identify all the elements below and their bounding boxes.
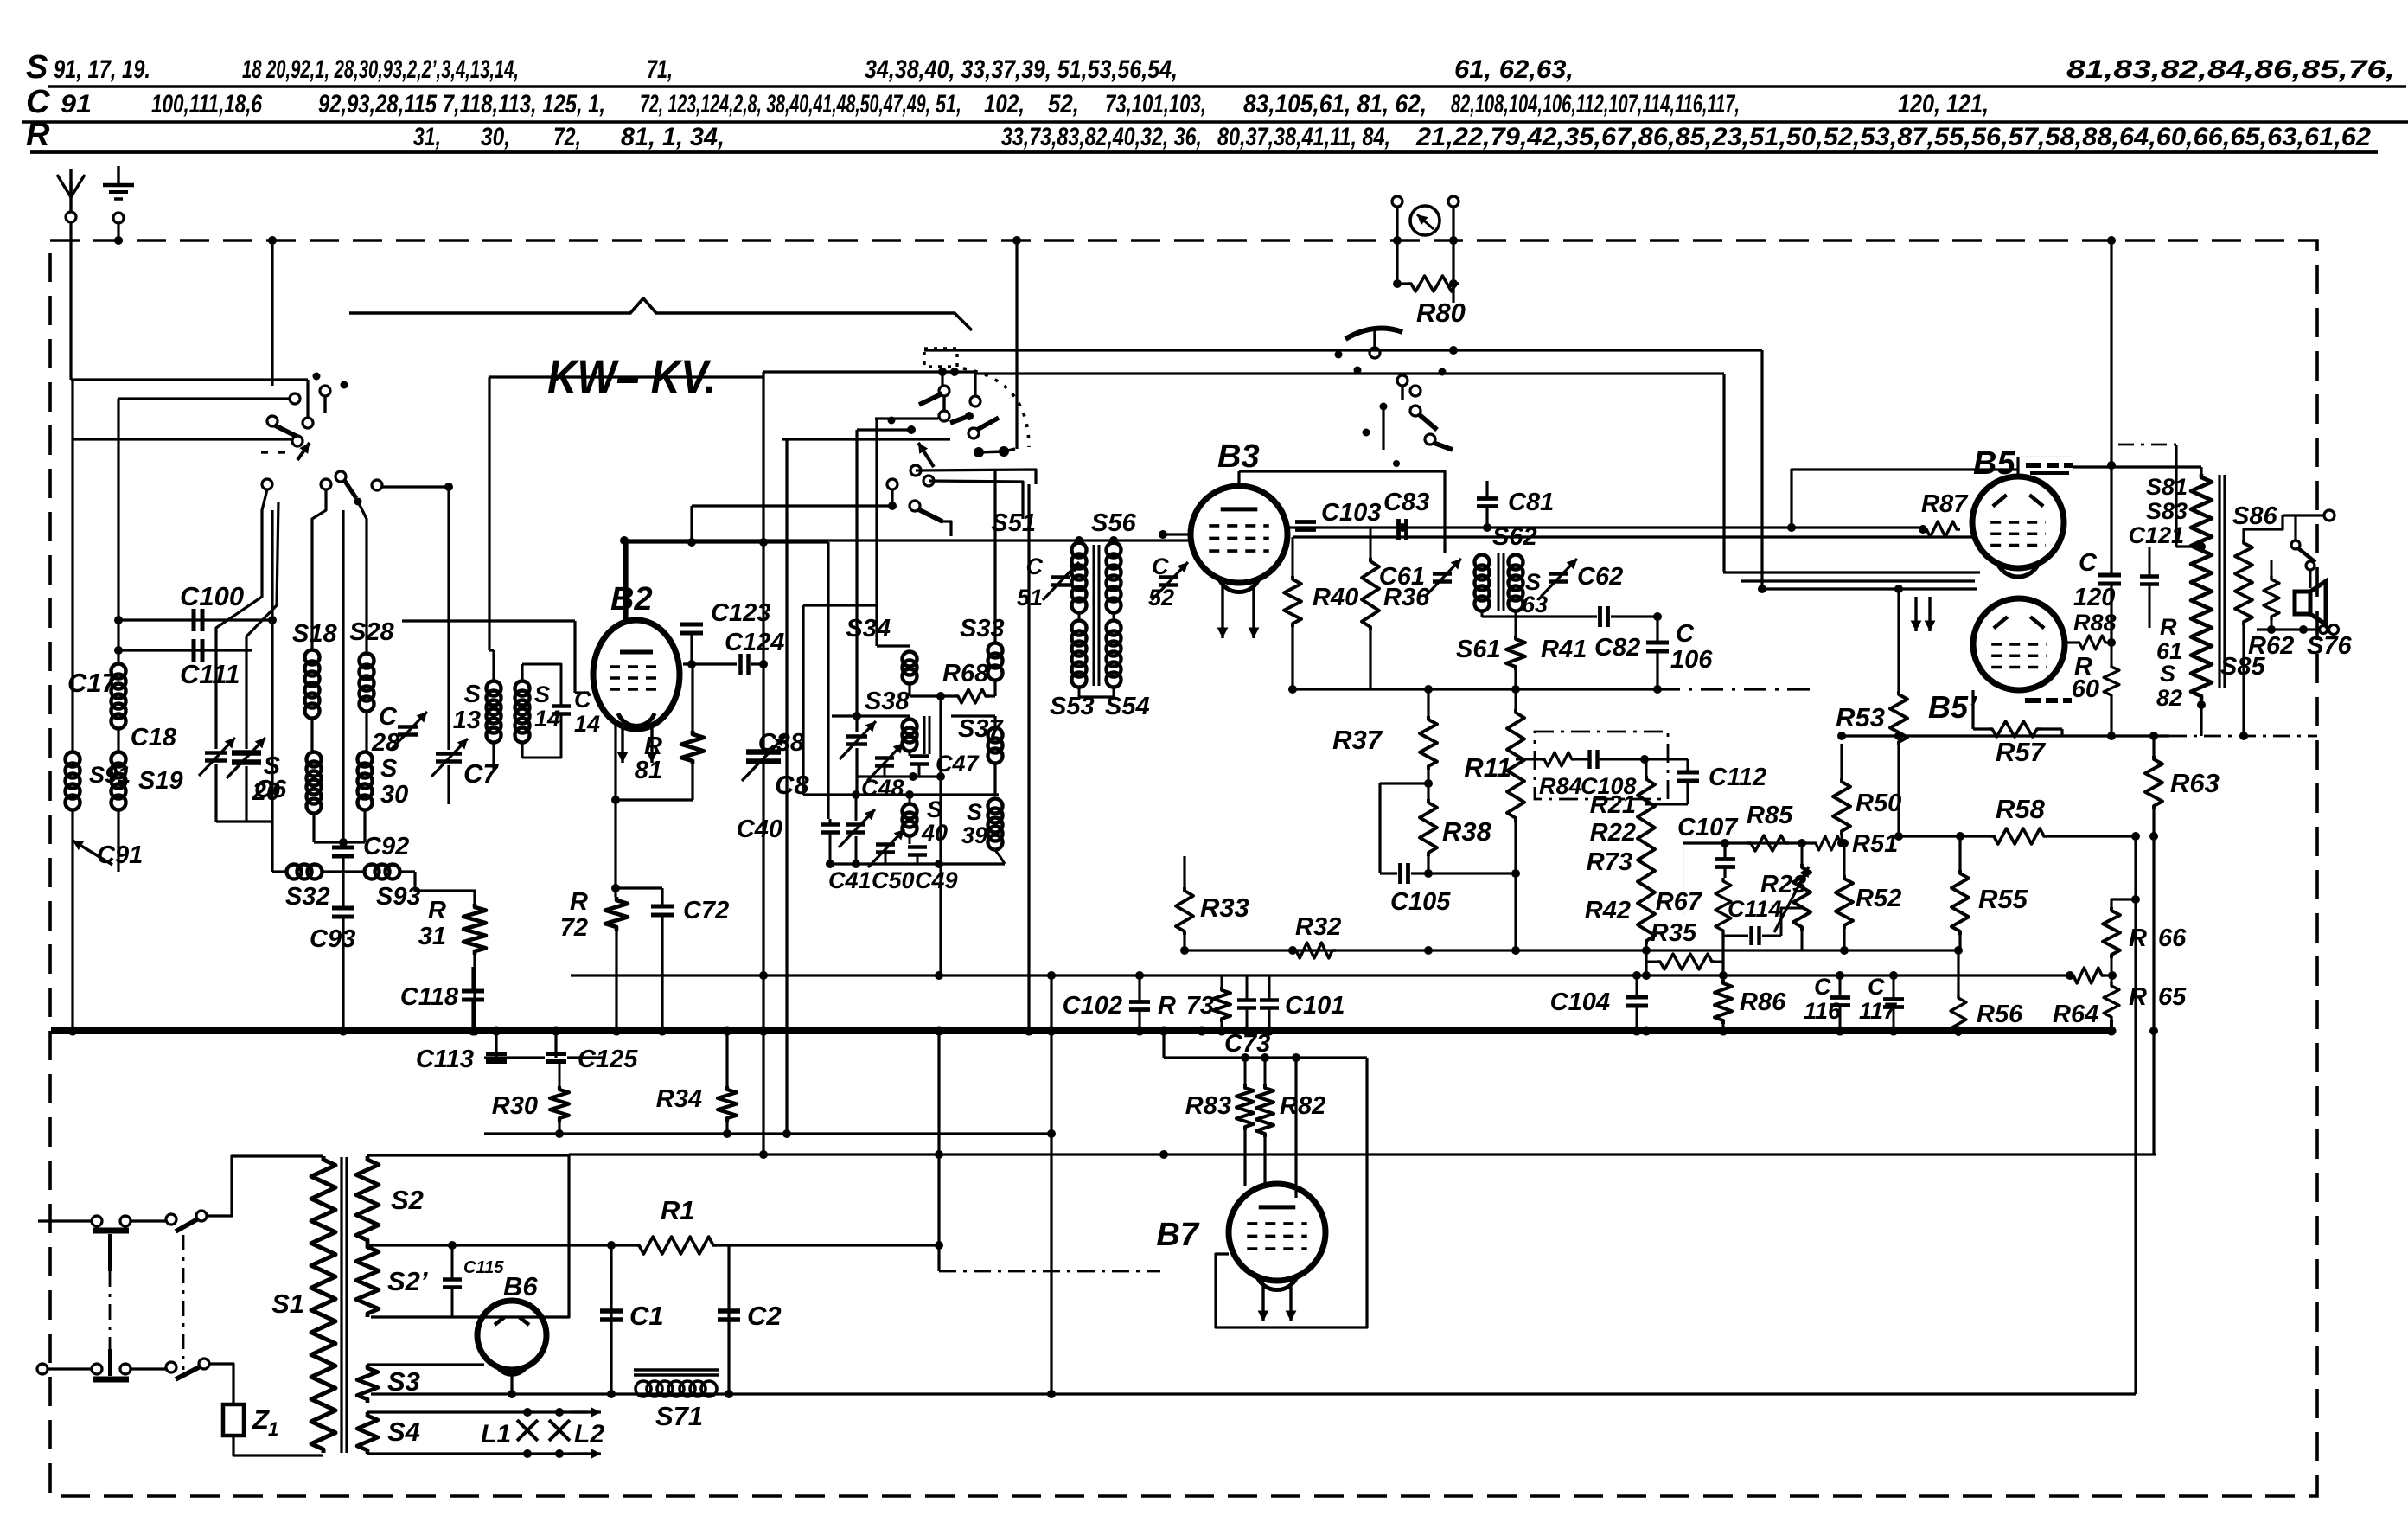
coil S32 xyxy=(287,865,302,879)
wire jack leads xyxy=(1396,207,1398,284)
wire S91 top to switch xyxy=(73,438,291,440)
wire R57 line xyxy=(1973,727,1989,730)
svg-text:S33: S33 xyxy=(960,615,1005,643)
wire S18-S20 link xyxy=(310,719,313,752)
wire S39 bottom xyxy=(995,850,1005,864)
svg-text:120, 121,: 120, 121, xyxy=(1898,90,1989,118)
svg-text:S91: S91 xyxy=(89,762,131,788)
wire secondary return xyxy=(2244,630,2257,657)
heater arrow B7 left xyxy=(1261,1287,1264,1321)
wire S86 lead xyxy=(2244,515,2283,540)
svg-text:R85: R85 xyxy=(1747,802,1793,829)
svg-text:R42: R42 xyxy=(1585,897,1631,924)
coil S37 xyxy=(988,728,1003,743)
capacitor C114 xyxy=(1749,926,1753,945)
wire x843 column xyxy=(727,1245,730,1394)
svg-text:R: R xyxy=(570,888,588,916)
plug gang dash-dot xyxy=(109,1271,112,1349)
wire sw2 out y556 xyxy=(929,481,1023,519)
wire sw1 drop x315 lower xyxy=(271,510,273,872)
svg-text:S4: S4 xyxy=(387,1417,420,1447)
wire R11 leads xyxy=(1515,689,1517,709)
wire osc box left x929 xyxy=(802,605,804,795)
wire C18 stub xyxy=(214,764,217,822)
resistor chain R21 R22 R73 R42 xyxy=(1638,776,1655,944)
wire C102 column xyxy=(1138,975,1140,1001)
svg-text:72,: 72, xyxy=(553,123,581,151)
wire C93 to bus xyxy=(342,857,344,907)
coil S91 xyxy=(66,752,80,767)
coil S20 xyxy=(307,752,322,767)
svg-text:C118: C118 xyxy=(400,983,459,1011)
svg-text:73: 73 xyxy=(1186,992,1214,1020)
wire S13 S14 frame xyxy=(492,650,495,681)
wire R72 to bus xyxy=(615,931,617,1031)
svg-text:R34: R34 xyxy=(656,1085,702,1113)
wire osc x1088 xyxy=(939,696,942,777)
svg-text:72, 123,124,2,8, 38,40,41,48,5: 72, 123,124,2,8, 38,40,41,48,50,47,49, xyxy=(640,90,930,118)
wire R80 ends xyxy=(1397,282,1408,285)
wire B5 anode feed y543 xyxy=(1792,470,2018,528)
svg-text:R23: R23 xyxy=(1760,871,1806,899)
svg-text:C107: C107 xyxy=(1677,814,1739,841)
wire R31 to bus xyxy=(473,955,476,1031)
heater arrow B3 left xyxy=(1221,586,1223,638)
svg-text:R73: R73 xyxy=(1587,848,1632,876)
wire y851 rail xyxy=(1842,734,2169,737)
resistor R64 xyxy=(2070,968,2105,983)
coil S63 xyxy=(1509,555,1523,570)
svg-text:R63: R63 xyxy=(2170,768,2220,798)
wire R55 leads xyxy=(1958,836,1961,870)
capacitor C121 xyxy=(2140,574,2159,578)
wire C47 stub xyxy=(909,751,911,756)
resistor R80 xyxy=(1408,276,1459,291)
capacitor C111 xyxy=(192,639,196,662)
svg-text:R38: R38 xyxy=(1442,816,1492,847)
wire screen rail y621 xyxy=(1293,535,1911,538)
svg-text:R86: R86 xyxy=(1740,988,1786,1016)
header rule under C row xyxy=(22,120,2408,123)
tube B7 xyxy=(1229,1184,1325,1281)
svg-text:R82: R82 xyxy=(1280,1092,1325,1120)
wire cathode y925 xyxy=(616,798,693,801)
wire anode rail y610 xyxy=(1287,526,1923,528)
wire osc y805 xyxy=(910,694,955,697)
wire R42 bottom xyxy=(1645,944,1647,975)
wire C113 links xyxy=(495,1031,497,1058)
wire S34 feed xyxy=(875,419,878,646)
svg-text:C: C xyxy=(379,703,398,731)
capacitor C118 xyxy=(462,989,484,994)
capacitor C40 xyxy=(821,822,840,827)
wire x1086 lower xyxy=(937,1031,940,1245)
wire B3 anode top xyxy=(1237,471,1240,487)
wire sw2 out y544 xyxy=(916,470,1036,484)
resistor R37 xyxy=(1420,716,1437,770)
capacitor C116 xyxy=(1830,995,1850,1000)
svg-text:S1: S1 xyxy=(271,1289,304,1319)
svg-text:81,83,82,84,86,85,76,: 81,83,82,84,86,85,76, xyxy=(2066,55,2395,84)
wire C50 stub xyxy=(885,853,887,864)
pickup jack terminals xyxy=(1392,196,1402,207)
wire C105 link xyxy=(1380,872,1397,874)
svg-text:R22: R22 xyxy=(1590,819,1636,847)
wire osc y898 xyxy=(856,775,942,777)
transformer core xyxy=(340,1157,342,1453)
dotted index rectangle xyxy=(924,349,957,367)
transformer winding S3 xyxy=(357,1365,378,1403)
capacitor C106 xyxy=(1646,641,1669,645)
svg-text:S2’: S2’ xyxy=(387,1266,428,1296)
svg-text:Z: Z xyxy=(252,1404,270,1435)
wire band bus y508 xyxy=(782,438,950,440)
svg-text:R56: R56 xyxy=(1977,1001,2023,1028)
resistor R51 xyxy=(1812,836,1844,850)
ground terminal xyxy=(113,213,124,223)
wire B2 anode stub xyxy=(625,542,628,624)
resistor R63 xyxy=(2145,756,2162,809)
wire R50 leads xyxy=(1840,744,1843,778)
svg-text:C113: C113 xyxy=(416,1046,474,1073)
dashed chassis border box xyxy=(50,240,2317,1496)
svg-text:C115: C115 xyxy=(463,1258,504,1277)
resistor R58 xyxy=(1990,828,2047,844)
capacitor C83 xyxy=(1396,519,1401,540)
resistor R11 xyxy=(1507,709,1524,822)
svg-text:C101: C101 xyxy=(1285,992,1345,1020)
wire R30 leads xyxy=(559,1063,561,1086)
wire C106 column xyxy=(1656,617,1658,643)
svg-text:18 20,92,1, 28,30,93,2,2’,3,4,: 18 20,92,1, 28,30,93,2,2’,3,4,13,14, xyxy=(242,55,519,84)
svg-text:S: S xyxy=(380,755,398,783)
wire R87 node xyxy=(1919,525,1927,534)
svg-text:R67: R67 xyxy=(1656,888,1703,916)
svg-text:117: 117 xyxy=(1859,998,1898,1024)
capacitor C108 xyxy=(1587,750,1591,769)
wire x707 column xyxy=(610,1245,612,1394)
wire S61 bottom xyxy=(1481,611,1484,617)
resistor R41 xyxy=(1506,636,1525,670)
svg-text:34,38,40, 33,37,39, 51,53,56,5: 34,38,40, 33,37,39, 51,53,56,54, xyxy=(865,55,1178,84)
capacitor C82 xyxy=(1598,606,1602,627)
wire sw2 out y603 xyxy=(942,521,951,536)
svg-text:13: 13 xyxy=(453,707,481,734)
svg-text:100,111,18,6: 100,111,18,6 xyxy=(151,90,262,118)
svg-text:C111: C111 xyxy=(180,659,240,689)
capacitor C124 xyxy=(738,654,743,675)
wire S34 bottom xyxy=(908,683,910,696)
transformer primary S1 xyxy=(311,1156,335,1453)
mains plug lower prong xyxy=(93,1377,129,1383)
svg-text:1: 1 xyxy=(268,1418,278,1440)
coil S56 xyxy=(1107,543,1121,558)
svg-text:B6: B6 xyxy=(503,1271,538,1302)
anode bars B5p xyxy=(2025,698,2041,703)
svg-text:R: R xyxy=(2129,983,2147,1011)
wire x883 column xyxy=(762,372,764,752)
wire osc out x1088 down xyxy=(939,777,942,975)
wire B2 grid out xyxy=(683,662,737,665)
svg-text:14: 14 xyxy=(574,711,600,737)
capacitor C101b xyxy=(1260,998,1279,1001)
capacitor C1 xyxy=(600,1308,623,1314)
svg-text:91, 17, 19.: 91, 17, 19. xyxy=(54,55,150,84)
svg-text:S: S xyxy=(464,681,482,708)
svg-text:C83: C83 xyxy=(1383,489,1429,516)
wire osc right x1190 xyxy=(1027,484,1030,1031)
svg-text:S32: S32 xyxy=(285,883,330,911)
svg-text:R: R xyxy=(1158,992,1176,1020)
svg-text:R84: R84 xyxy=(1539,773,1582,799)
resistor R83 xyxy=(1236,1084,1254,1130)
wire R83 leads xyxy=(1244,1058,1247,1084)
svg-text:C123: C123 xyxy=(711,599,770,627)
bracket over oscillator section xyxy=(349,298,972,330)
svg-text:C104: C104 xyxy=(1550,988,1610,1016)
wire C104 column xyxy=(1636,975,1638,997)
rotary band switch S1a contacts xyxy=(290,393,300,404)
svg-text:C50: C50 xyxy=(872,867,915,893)
wire OPT top xyxy=(2200,467,2202,474)
wire S91 to bus xyxy=(71,809,73,1031)
wire C38 column xyxy=(855,430,858,732)
mains plug upper prong xyxy=(93,1228,129,1234)
svg-text:S28: S28 xyxy=(349,618,394,646)
resistor R55 xyxy=(1951,870,1969,935)
wire y1008 xyxy=(272,870,287,873)
core lines S38 xyxy=(923,716,926,754)
wire switch1 feed from border xyxy=(271,240,273,386)
svg-text:R50: R50 xyxy=(1856,790,1901,817)
wire x2442 upper xyxy=(2110,240,2112,465)
wire C111 link y752 xyxy=(118,649,252,651)
resistor R73b xyxy=(1213,987,1230,1022)
svg-text:81, 1, 34,: 81, 1, 34, xyxy=(621,123,725,151)
wire osc y999 xyxy=(830,862,1005,865)
heater arrow B5p right xyxy=(1928,597,1931,631)
coil S28 xyxy=(360,654,374,668)
svg-text:20: 20 xyxy=(252,778,280,806)
mains connector top xyxy=(92,1216,102,1226)
resistor R68 xyxy=(955,689,989,703)
wire R40 leads xyxy=(1292,537,1294,576)
wire C17 top to switch xyxy=(118,397,290,400)
svg-text:C73: C73 xyxy=(1224,1030,1270,1058)
svg-text:C114: C114 xyxy=(1728,896,1782,922)
resistor R81 xyxy=(681,731,704,764)
svg-text:S81: S81 xyxy=(2146,474,2188,500)
resistor R34 xyxy=(718,1086,737,1122)
transformer winding S4 xyxy=(357,1412,378,1454)
wire C6 stub xyxy=(245,766,247,822)
svg-text:S: S xyxy=(967,799,982,825)
resistor R84 xyxy=(1541,752,1575,766)
fuse Z1 xyxy=(223,1404,244,1436)
tube B2 xyxy=(593,620,680,729)
svg-text:C2: C2 xyxy=(747,1301,782,1331)
antenna symbol xyxy=(69,182,72,212)
wire S3 top lead xyxy=(367,1363,484,1366)
wire grid rails into B5p xyxy=(1723,571,1980,573)
capacitor C117 xyxy=(1883,997,1904,1001)
coil S33a xyxy=(988,643,1003,658)
coil S13 xyxy=(487,681,501,696)
header rule under S row xyxy=(48,85,2406,87)
heater arrow B2 left xyxy=(621,726,623,763)
switch contact bottom xyxy=(166,1362,176,1372)
wire S28-S30 link xyxy=(365,712,367,752)
wire R86 leads xyxy=(1722,975,1725,980)
wire IF1 mid links xyxy=(1078,612,1081,621)
svg-text:C49: C49 xyxy=(915,867,958,893)
wire osc y828 xyxy=(832,714,910,717)
svg-text:R21: R21 xyxy=(1590,791,1636,819)
svg-text:B3: B3 xyxy=(1217,438,1260,475)
wire dash-dot y1470 xyxy=(939,1270,1160,1273)
svg-text:C82: C82 xyxy=(1594,634,1640,662)
resistor R62 xyxy=(2264,576,2279,620)
wire screen rail stub y621 xyxy=(1911,535,1973,538)
wire R21 top xyxy=(1645,759,1648,776)
coil S53 xyxy=(1072,621,1087,636)
svg-text:S3: S3 xyxy=(387,1366,420,1397)
coil S38 xyxy=(903,720,917,734)
coil S34 xyxy=(903,652,917,667)
wire y974 node xyxy=(314,841,365,843)
trimmer C50 xyxy=(876,842,895,847)
svg-text:L1: L1 xyxy=(481,1420,511,1449)
wire band bus y585 xyxy=(692,504,892,507)
wire R66 top xyxy=(2111,899,2136,907)
svg-text:C81: C81 xyxy=(1508,489,1554,516)
svg-text:R32: R32 xyxy=(1295,913,1341,941)
wire R41 leads xyxy=(1515,611,1517,636)
wire sw1 S28 drop xyxy=(358,502,367,654)
wire anode to OPT xyxy=(2073,465,2201,468)
wire grid rail y1223 xyxy=(1164,1056,1367,1059)
wire R88 left xyxy=(2065,641,2076,643)
wire sw2 vertical from border xyxy=(1015,240,1018,449)
tube B5p xyxy=(1973,598,2065,690)
wire C49 stub xyxy=(917,855,919,864)
svg-text:39: 39 xyxy=(961,822,987,848)
wire AVC rail y1099 xyxy=(1185,949,1958,951)
wire x2470 column xyxy=(2134,836,2137,1394)
wire C81 stub xyxy=(1485,481,1488,498)
tube B6 xyxy=(477,1301,546,1370)
resistor R72 xyxy=(605,897,628,931)
wire left col x137 xyxy=(117,399,119,664)
trimmer C48 xyxy=(875,756,894,760)
IF1 core xyxy=(1093,545,1095,686)
bus junction dots xyxy=(68,1027,78,1036)
wire rail y1311 xyxy=(484,1132,1051,1135)
resistor R36 xyxy=(1362,558,1379,630)
svg-text:R88: R88 xyxy=(2073,610,2117,636)
svg-text:R40: R40 xyxy=(1313,584,1358,611)
resistor R86 xyxy=(1715,980,1732,1024)
coil S19 xyxy=(112,752,126,767)
wire C101 stubs xyxy=(1246,975,1249,1000)
wire sw1 C7 feed xyxy=(382,485,449,488)
wire rail drop x1994 xyxy=(1722,374,1725,572)
svg-text:C112: C112 xyxy=(1709,764,1766,791)
dotted travel arc xyxy=(963,368,1029,447)
wire C105 left drop xyxy=(1378,783,1381,873)
wire C116 column xyxy=(1839,975,1842,997)
node C91 arrow xyxy=(73,841,112,865)
potentiometer R23 xyxy=(1793,864,1811,931)
capacitor C100 xyxy=(192,609,196,631)
svg-text:83,105,61, 81, 62,: 83,105,61, 81, 62, xyxy=(1243,90,1427,118)
switch gang dash-dot xyxy=(182,1235,185,1370)
svg-text:51: 51 xyxy=(1017,585,1043,611)
wire sw1 S18 drop xyxy=(312,489,326,650)
svg-text:120: 120 xyxy=(2073,584,2115,611)
svg-text:31: 31 xyxy=(418,923,446,950)
svg-text:52,: 52, xyxy=(1048,90,1079,118)
svg-text:C: C xyxy=(1868,974,1885,1000)
wire x1499 drop xyxy=(1294,1058,1297,1198)
coil S18 xyxy=(305,650,320,665)
svg-text:R80: R80 xyxy=(1416,297,1466,328)
wire antenna col x84 xyxy=(71,380,73,752)
coil S54 xyxy=(1107,621,1121,636)
capacitor C113 xyxy=(486,1052,507,1056)
svg-text:S62: S62 xyxy=(1492,523,1537,551)
svg-text:R64: R64 xyxy=(2053,1001,2098,1028)
switch S76 xyxy=(2294,515,2296,540)
wire R23 leads xyxy=(1801,843,1804,864)
svg-text:C: C xyxy=(2079,549,2098,577)
svg-text:R58: R58 xyxy=(1996,794,2046,824)
capacitor C2 xyxy=(718,1308,740,1314)
svg-text:C92: C92 xyxy=(363,833,409,860)
resistor R30 xyxy=(550,1086,569,1122)
svg-text:C1: C1 xyxy=(629,1301,664,1331)
svg-text:106: 106 xyxy=(1670,646,1713,674)
svg-text:R41: R41 xyxy=(1541,636,1587,663)
node border junction x315 xyxy=(268,236,277,245)
mains connector bottom xyxy=(92,1364,102,1374)
wire R51 node xyxy=(1840,839,1849,847)
resistor R38 xyxy=(1420,799,1437,856)
wire C118 stub xyxy=(471,967,474,991)
wire mains top link xyxy=(131,1219,166,1222)
svg-text:92,93,28,115 7,118,113, 125, 1: 92,93,28,115 7,118,113, 125, 1, xyxy=(318,90,605,118)
wire C7 stub xyxy=(447,765,450,804)
svg-text:73,101,103,: 73,101,103, xyxy=(1105,90,1206,118)
capacitor C103 xyxy=(1295,520,1316,524)
svg-text:R1: R1 xyxy=(661,1195,695,1225)
wire rail y432 xyxy=(975,372,1724,374)
trimmer C62 xyxy=(1549,572,1568,576)
svg-text:30: 30 xyxy=(380,781,408,809)
wire R34 leads xyxy=(725,1031,728,1086)
capacitor C107 xyxy=(1715,857,1735,861)
wire lower trimmer stubs xyxy=(829,819,832,824)
wire band bus y430 xyxy=(763,370,975,373)
wire sw1 C6 drop xyxy=(246,502,278,749)
resistor R56 xyxy=(1951,995,1966,1036)
dash-dot filter box xyxy=(1535,732,1668,799)
svg-text:30,: 30, xyxy=(481,123,510,151)
speaker terminals bottom xyxy=(2320,626,2328,634)
svg-text:61, 62,63,: 61, 62,63, xyxy=(1454,55,1574,84)
wire bus rail y1335 xyxy=(569,1153,2156,1155)
wire x397 column xyxy=(342,510,344,841)
